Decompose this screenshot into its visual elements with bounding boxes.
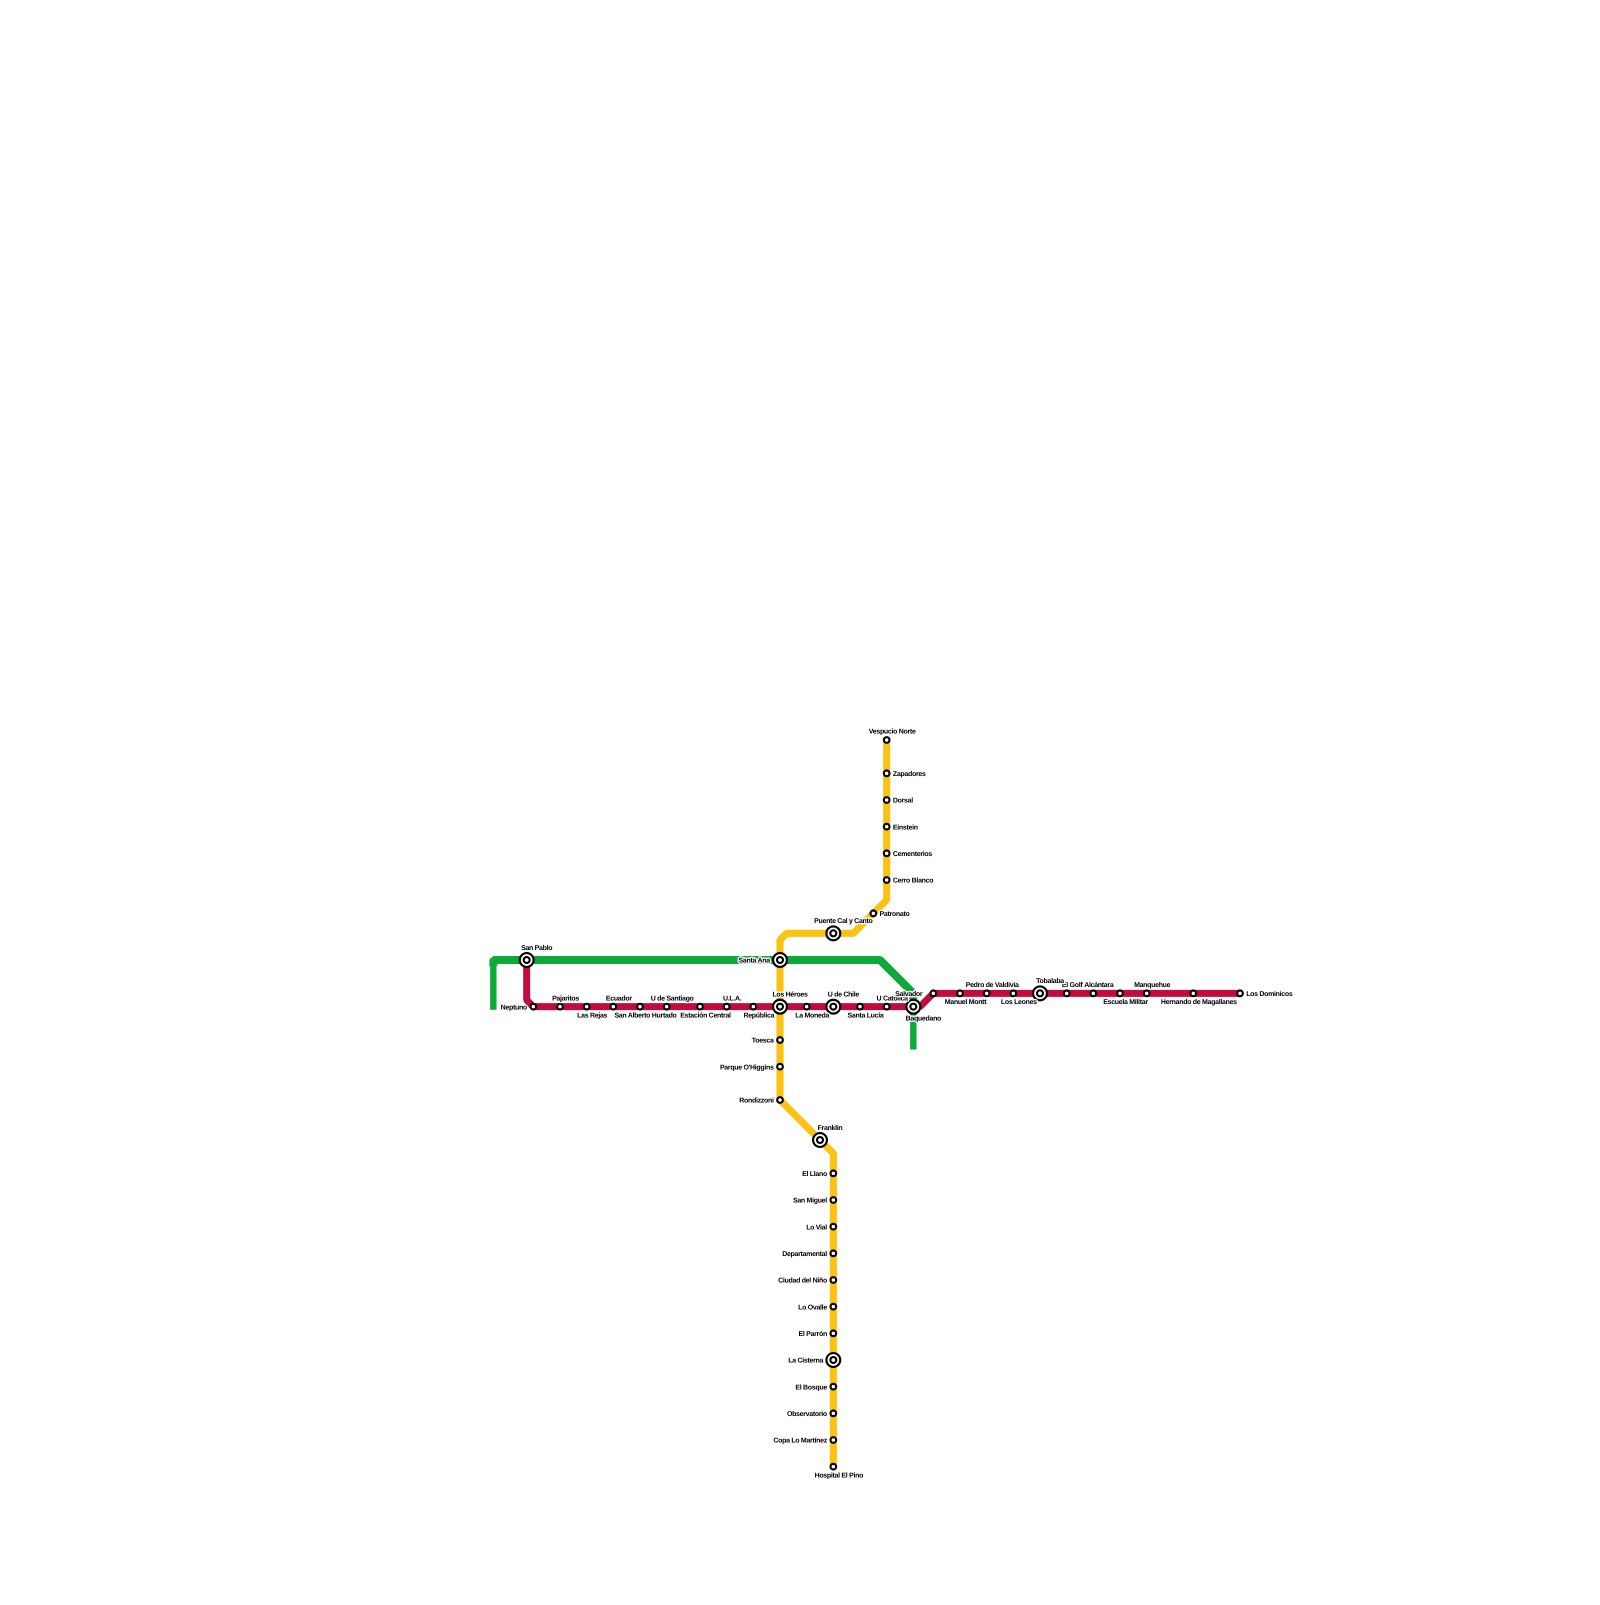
station Observatorio (829, 1409, 837, 1417)
svg-text:Lo Vial: Lo Vial (806, 1223, 827, 1231)
station Einstein (883, 823, 891, 831)
svg-text:Toesca: Toesca (752, 1038, 774, 1045)
station Rondizzoni (776, 1096, 784, 1104)
station El Llano (829, 1169, 837, 1177)
station El Parrón (829, 1329, 837, 1337)
svg-text:U de Chile: U de Chile (828, 990, 860, 998)
station U Católica (883, 1003, 891, 1011)
interchange station Los Héroes (772, 999, 788, 1015)
svg-text:Hospital El Pino: Hospital El Pino (815, 1471, 864, 1479)
svg-text:Alcántara: Alcántara (1084, 981, 1114, 989)
svg-text:Las Rejas: Las Rejas (577, 1011, 607, 1019)
line L2 (yellow) (780, 738, 887, 1469)
svg-text:Salvador: Salvador (895, 990, 923, 998)
svg-text:Santa Ana: Santa Ana (739, 958, 771, 965)
svg-text:Puente Cal y Canto: Puente Cal y Canto (814, 917, 872, 925)
interchange station Baquedano (905, 999, 921, 1015)
station La Moneda (803, 1003, 811, 1011)
station Los Dominicos (1236, 989, 1244, 997)
station Las Rejas (583, 1003, 591, 1011)
line L1 (red) (527, 960, 1242, 1007)
station Salvador (929, 989, 937, 997)
svg-text:San Pablo: San Pablo (521, 944, 552, 952)
station U.L.A. (723, 1003, 731, 1011)
station Copa Lo Martínez (829, 1436, 837, 1444)
interchange station San Pablo (519, 952, 535, 968)
line L5 (green) main (493, 960, 913, 999)
station San Miguel (829, 1196, 837, 1204)
svg-text:Parque O'Higgins: Parque O'Higgins (720, 1063, 774, 1071)
station Toesca (776, 1036, 784, 1044)
svg-text:El Bosque: El Bosque (795, 1383, 827, 1391)
svg-text:Cementerios: Cementerios (893, 850, 933, 858)
station Pedro de Valdivia (983, 989, 991, 997)
svg-text:Copa Lo Martínez: Copa Lo Martínez (773, 1437, 827, 1445)
svg-text:Manquehue: Manquehue (1134, 981, 1171, 989)
svg-text:La Moneda: La Moneda (795, 1011, 829, 1019)
interchange station La Cisterna (825, 1352, 841, 1368)
interchange station Franklin (812, 1132, 828, 1148)
svg-text:Lo Ovalle: Lo Ovalle (798, 1303, 827, 1311)
station Ciudad del Niño (829, 1276, 837, 1284)
svg-text:Cerro Blanco: Cerro Blanco (893, 877, 933, 885)
station Neptuno (529, 1003, 537, 1011)
station Zapadores (883, 769, 891, 777)
station Dorsal (883, 796, 891, 804)
svg-text:San Miguel: San Miguel (793, 1197, 827, 1205)
station Lo Vial (829, 1223, 837, 1231)
station El Golf (1063, 989, 1071, 997)
station Vespucio Norte (883, 736, 891, 744)
station Hernando de Magallanes (1189, 989, 1197, 997)
svg-text:República: República (743, 1011, 774, 1019)
svg-text:Observatorio: Observatorio (787, 1410, 827, 1418)
svg-text:San Alberto Hurtado: San Alberto Hurtado (614, 1011, 676, 1019)
svg-text:Santa Lucía: Santa Lucía (848, 1011, 884, 1019)
svg-text:Vespucio Norte: Vespucio Norte (869, 728, 916, 736)
station Lo Ovalle (829, 1303, 837, 1311)
svg-text:Dorsal: Dorsal (893, 797, 913, 805)
svg-text:Patronato: Patronato (880, 911, 910, 918)
station Alcántara (1089, 989, 1097, 997)
svg-text:Ciudad del Niño: Ciudad del Niño (778, 1277, 827, 1285)
svg-text:Manuel Montt: Manuel Montt (945, 998, 987, 1006)
station El Bosque (829, 1383, 837, 1391)
svg-text:Franklin: Franklin (818, 1124, 843, 1132)
svg-text:La Cisterna: La Cisterna (788, 1357, 823, 1365)
line L5 (green) south vertical (910, 991, 916, 1050)
station Manuel Montt (956, 989, 964, 997)
svg-text:Escuela Militar: Escuela Militar (1103, 998, 1148, 1006)
station Hospital El Pino (829, 1463, 837, 1471)
station Parque O'Higgins (776, 1063, 784, 1071)
interchange station Tobalaba (1032, 985, 1048, 1001)
station Cementerios (883, 849, 891, 857)
station Los Leones (1009, 989, 1017, 997)
svg-text:Los Héroes: Los Héroes (772, 990, 808, 998)
station Ecuador (609, 1003, 617, 1011)
svg-text:Einstein: Einstein (893, 823, 918, 831)
station República (749, 1003, 757, 1011)
svg-text:Departamental: Departamental (782, 1250, 827, 1258)
svg-text:Neptuno: Neptuno (501, 1004, 527, 1011)
svg-text:Hernando de Magallanes: Hernando de Magallanes (1161, 998, 1237, 1006)
svg-text:Estación Central: Estación Central (680, 1011, 731, 1019)
svg-text:El Golf: El Golf (1062, 981, 1083, 989)
svg-text:El Parrón: El Parrón (799, 1330, 827, 1338)
svg-text:Los Dominicos: Los Dominicos (1246, 990, 1293, 998)
svg-text:Pedro de Valdivia: Pedro de Valdivia (966, 981, 1019, 989)
station Cerro Blanco (883, 876, 891, 884)
svg-text:U de Santiago: U de Santiago (651, 994, 694, 1002)
svg-text:Rondizzoni: Rondizzoni (739, 1097, 774, 1105)
station Patronato (869, 909, 877, 917)
svg-text:Tobalaba: Tobalaba (1036, 977, 1064, 985)
svg-text:Baquedano: Baquedano (906, 1015, 941, 1023)
station Estación Central (696, 1003, 704, 1011)
svg-text:Pajaritos: Pajaritos (552, 994, 579, 1002)
svg-text:U.L.A.: U.L.A. (723, 995, 742, 1002)
station San Alberto Hurtado (636, 1003, 644, 1011)
interchange station Santa Ana (772, 952, 788, 968)
svg-text:El Llano: El Llano (802, 1170, 827, 1178)
svg-text:Los Leones: Los Leones (1001, 999, 1037, 1006)
interchange station U de Chile (825, 999, 841, 1015)
station Escuela Militar (1116, 989, 1124, 997)
station Santa Lucía (856, 1003, 864, 1011)
station Manquehue (1143, 989, 1151, 997)
line L5 (green) west vertical (490, 958, 496, 1010)
svg-text:Ecuador: Ecuador (606, 994, 632, 1002)
station Pajaritos (556, 1003, 564, 1011)
svg-text:Zapadores: Zapadores (893, 770, 926, 778)
interchange station Puente Cal y Canto (825, 925, 841, 941)
station Departamental (829, 1249, 837, 1257)
station U de Santiago (663, 1003, 671, 1011)
